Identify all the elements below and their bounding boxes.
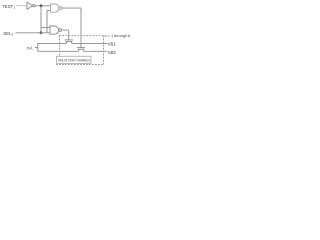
wire NAND1 output	[62, 7, 81, 9]
svg-text:SEL1: SEL1	[3, 31, 13, 37]
wire TEST1 to inverter	[16, 5, 27, 7]
svg-text:nB1: nB1	[108, 41, 116, 46]
wire NAND2 output	[61, 29, 68, 31]
svg-text:n = 1 through 8: n = 1 through 8	[105, 34, 131, 38]
wire top channel left segment	[38, 42, 67, 44]
nand gate U3 (bottom)	[50, 26, 59, 34]
wire bottom channel right segment	[84, 50, 108, 52]
transistor Q1 gate bar	[65, 39, 73, 41]
transistor Q2 gate bar	[77, 47, 85, 49]
nand gate U2 (top)	[51, 4, 60, 12]
dashed box right border	[103, 36, 105, 65]
wire top channel right segment	[72, 42, 108, 44]
wire gate line of Q2 (from NAND1)	[80, 8, 82, 48]
dashed box top border	[60, 35, 104, 37]
transistor Q1 source/drain and channel bar	[66, 42, 73, 44]
dashed box left border	[59, 36, 61, 57]
svg-text:TEST1: TEST1	[2, 4, 15, 10]
label box ONE OF EIGHT CHANNELS	[57, 56, 92, 63]
wire vertical branch from TEST1-bar down to SEL junction	[40, 6, 42, 33]
wire SEL branch up to NAND1 input B	[47, 11, 51, 33]
wire branch to NAND2 input A	[41, 26, 50, 28]
svg-text:ONE OF EIGHT CHANNELS: ONE OF EIGHT CHANNELS	[58, 58, 90, 62]
wire gate line of Q1 (from NAND2)	[68, 30, 70, 40]
wire nA split vertical	[37, 43, 39, 51]
node junction dot on SEL line	[40, 31, 43, 34]
inverter U1	[27, 2, 33, 9]
transistor Q2 source/drain and channel bar	[78, 49, 85, 51]
dashed box bottom border	[56, 63, 104, 65]
wire nA stub	[35, 47, 38, 49]
wire SEL horizontal to NAND2 input B	[16, 32, 51, 34]
node junction dot on TEST1-bar line	[40, 4, 43, 7]
wire bottom channel left segment	[38, 50, 79, 52]
svg-text:nA: nA	[27, 46, 32, 51]
svg-text:nB2: nB2	[108, 50, 116, 55]
wire inverter output to NAND1 input A	[35, 5, 50, 7]
